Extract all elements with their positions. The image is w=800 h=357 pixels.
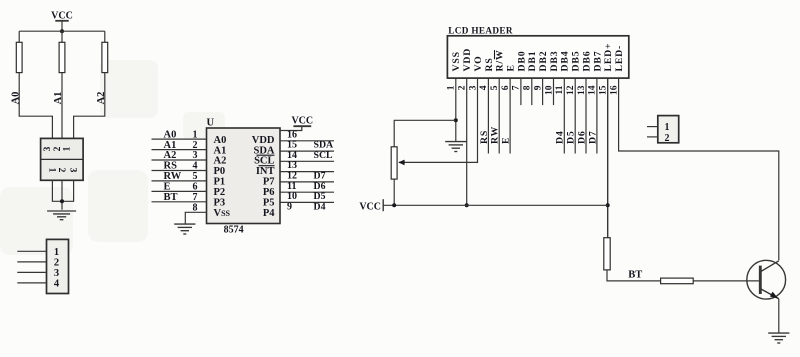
decorative watermark (not labelled further): [0, 60, 225, 255]
svg-text:4: 4: [479, 85, 489, 90]
svg-text:A0: A0: [164, 129, 177, 140]
svg-text:2: 2: [54, 258, 59, 269]
J3 pin number 4: [479, 85, 489, 90]
U1 inside pin name Vss: [214, 208, 231, 219]
U1 pin number 9: [287, 201, 292, 212]
U1 pin number 6: [193, 182, 198, 193]
J3 pin number 7: [512, 85, 522, 90]
svg-text:RS: RS: [479, 130, 490, 144]
J3 pin number 13: [577, 85, 587, 95]
svg-text:DB7: DB7: [592, 51, 603, 72]
U1 inside pin name P3: [214, 198, 226, 209]
wire: U1 pin 5 (RW): [152, 180, 207, 182]
wire: J3 pin 14 (D7) stub: [596, 78, 598, 153]
svg-text:9: 9: [533, 85, 543, 90]
net label RW: [490, 126, 501, 144]
svg-text:BT: BT: [164, 192, 178, 203]
svg-text:4: 4: [193, 161, 198, 172]
wire: U1 pin 8 (Vss) to ground: [185, 212, 207, 224]
svg-text:6: 6: [193, 182, 198, 193]
svg-text:D6: D6: [576, 130, 587, 144]
svg-text:16: 16: [609, 85, 619, 95]
net label SDA: [314, 140, 334, 151]
IC U1 designator U: [207, 118, 215, 129]
U1 inside pin name P6: [263, 187, 275, 198]
wire: J1 bottom pins to ground junction: [52, 180, 73, 209]
svg-text:SCL: SCL: [314, 150, 334, 161]
resistor R2 (pull-up A1): [59, 42, 65, 72]
svg-text:A1: A1: [214, 145, 227, 156]
J3 inside pin name DB6: [581, 51, 592, 72]
J3 inside pin name VDD: [462, 48, 473, 72]
wire: J3 pin 16 (LED-) to transistor collector: [619, 78, 779, 260]
wire: J3 pin 13 (D6) stub: [585, 78, 587, 153]
svg-text:DB4: DB4: [560, 51, 571, 72]
U1 pin number 14: [287, 150, 297, 161]
wire: J3 pin 10 (DB3) stub: [553, 78, 555, 105]
connector J2 (1x4 header) body: [47, 239, 69, 293]
net label A0: [10, 92, 21, 105]
wire: J4 pin 2 stub: [647, 136, 658, 138]
svg-text:10: 10: [544, 85, 554, 95]
wire: J4 pin 1 stub: [647, 126, 658, 128]
J3 inside pin name DB3: [549, 51, 560, 72]
svg-text:RS: RS: [164, 161, 178, 172]
svg-text:VCC: VCC: [291, 115, 313, 126]
svg-text:5: 5: [490, 85, 500, 90]
svg-text:VSS: VSS: [214, 208, 231, 219]
resistor R3 (pull-up A2): [102, 42, 108, 72]
svg-text:13: 13: [577, 85, 587, 95]
net label BT: [164, 192, 178, 203]
J3 pin number 10: [544, 85, 554, 95]
svg-text:DB3: DB3: [549, 51, 560, 72]
J3 pin number 3: [468, 85, 478, 90]
net label D5: [314, 191, 326, 202]
J3 pin number 1: [447, 85, 457, 90]
U1 inside pin name SCL: [254, 156, 274, 167]
svg-text:D7: D7: [587, 130, 598, 144]
svg-text:14: 14: [588, 85, 598, 95]
svg-text:E: E: [506, 64, 517, 71]
connector J2 pin number 2: [54, 258, 59, 269]
svg-text:P3: P3: [214, 198, 226, 209]
net label A2: [96, 92, 107, 105]
J3 inside pin name LED-: [614, 45, 625, 72]
svg-text:A2: A2: [164, 150, 177, 161]
J3 inside pin name DB5: [571, 51, 582, 72]
svg-text:DB0: DB0: [516, 51, 527, 72]
J3 inside pin name E: [506, 64, 517, 71]
ground at U1 Vss: [174, 224, 195, 234]
wire: U1 pin 2 (A1): [152, 149, 207, 151]
net label A0: [164, 129, 177, 140]
J3 pin number 15: [599, 85, 609, 95]
potentiometer RP1 body: [391, 147, 397, 179]
svg-text:7: 7: [512, 85, 522, 90]
wire: J3 pin 5 (RW) stub: [498, 78, 500, 153]
wire: U1 pin 1 (A0): [152, 138, 207, 140]
J3 inside pin name VSS: [451, 51, 462, 71]
wire: J2 pin 4 lead: [17, 282, 46, 284]
svg-text:2: 2: [53, 146, 63, 151]
node: junction under J1: [60, 199, 64, 203]
node: LED+ on VCC rail: [606, 203, 610, 207]
wire: J3 pin 4 (RS) stub: [487, 78, 489, 153]
svg-text:A0: A0: [10, 92, 21, 105]
U1 pin number 7: [193, 192, 198, 203]
svg-text:P6: P6: [263, 187, 275, 198]
svg-text:INT: INT: [256, 166, 275, 177]
net label A1: [164, 140, 177, 151]
svg-text:RS: RS: [484, 57, 495, 71]
wire: J3 pin 3 (VO) to potentiometer wiper: [399, 78, 478, 162]
connector J4 pin number 2: [665, 133, 670, 144]
U1 inside pin name P4: [263, 208, 275, 219]
J3 pin number 6: [501, 85, 511, 90]
U1 inside pin name A1: [214, 145, 227, 156]
resistor R5 (base resistor BT): [661, 278, 694, 284]
wire: J3 pin 15 (LED+) down to VCC rail and R4: [607, 78, 609, 238]
wire: U1 pin 16 to VCC: [280, 126, 302, 130]
svg-text:VDD: VDD: [462, 48, 473, 72]
wire: U1 pin 12: [280, 171, 334, 173]
U1 inside pin name INT: [256, 166, 275, 177]
net label A1: [53, 92, 64, 105]
connector J4 pin number 1: [665, 122, 670, 133]
svg-text:VCC: VCC: [359, 201, 381, 212]
svg-text:9: 9: [287, 201, 292, 212]
net label D6: [576, 130, 587, 144]
wire: rail to resistor R3: [104, 31, 106, 42]
svg-text:2: 2: [56, 168, 66, 173]
wire: U1 pin 6 (E): [152, 190, 207, 192]
svg-text:R/W: R/W: [495, 50, 506, 72]
ground under J1: [47, 211, 76, 220]
J3 pin number 16: [609, 85, 619, 95]
wire: U1 pin 9: [280, 201, 334, 203]
svg-text:7: 7: [193, 192, 198, 203]
U1 inside pin name SDA: [253, 145, 274, 156]
U1 pin number 2: [193, 140, 198, 151]
power symbol VCC at U1 pin 16: [291, 115, 313, 126]
U1 inside pin name A2: [214, 156, 227, 167]
U1 pin number 4: [193, 161, 198, 172]
svg-text:DB5: DB5: [571, 51, 582, 72]
J3 inside pin name DB1: [527, 51, 538, 72]
net label RS: [479, 130, 490, 144]
svg-text:4: 4: [54, 279, 60, 290]
wire: VCC rail: [383, 204, 608, 206]
wire: J2 pin 3 lead: [17, 271, 46, 273]
svg-text:D5: D5: [566, 130, 577, 144]
J3 inside pin name DB2: [538, 51, 549, 72]
wire: Q1 emitter to ground: [778, 299, 780, 333]
svg-text:3: 3: [54, 268, 59, 279]
U1 inside pin name P7: [263, 177, 275, 188]
svg-text:6: 6: [501, 85, 511, 90]
connector J1 pin labels top row 3 2 1: [43, 146, 72, 151]
U1 pin number 5: [193, 171, 198, 182]
U1 inside pin name P5: [263, 198, 275, 209]
svg-text:A2: A2: [96, 92, 107, 105]
svg-text:1: 1: [193, 129, 198, 140]
node: VCC rail junction: [60, 29, 64, 33]
net label BT: [628, 270, 642, 281]
wire: rail to resistor R1: [18, 31, 20, 42]
resistor R4 (LED+ branch): [604, 238, 610, 270]
wire: U1 pin 4 (RS): [152, 170, 207, 172]
J3 pin number 11: [555, 85, 565, 94]
wire: U1 pin 3 (A2): [152, 159, 207, 161]
LCD HEADER title: [448, 26, 513, 36]
svg-text:LED+: LED+: [603, 43, 614, 72]
U1 pin number 13: [287, 160, 297, 171]
node: VSS / pot junction: [454, 118, 458, 122]
svg-text:2: 2: [458, 85, 468, 90]
connector J2 pin number 4: [54, 279, 60, 290]
svg-text:5: 5: [193, 171, 198, 182]
J3 inside pin name RS: [484, 57, 495, 71]
svg-text:1: 1: [447, 85, 457, 90]
svg-text:P4: P4: [263, 208, 275, 219]
net label RS: [164, 161, 178, 172]
overline of SCL: [257, 154, 275, 156]
J3 inside pin name LED+: [603, 43, 614, 72]
svg-text:8: 8: [193, 203, 198, 214]
wire: J3 pin 1 (VSS) down to ground: [455, 78, 457, 142]
transistor Q1 (NPN): [747, 260, 786, 299]
wire: resistor R3 lower lead: [74, 73, 105, 139]
J3 inside pin name DB0: [516, 51, 527, 72]
U1 pin number 10: [287, 191, 297, 202]
svg-text:11: 11: [555, 85, 565, 94]
net label D6: [314, 181, 326, 192]
svg-text:A1: A1: [53, 92, 64, 105]
svg-text:SCL: SCL: [254, 156, 274, 167]
svg-text:2: 2: [193, 140, 198, 151]
svg-text:3: 3: [43, 146, 53, 151]
net label D7: [314, 171, 326, 182]
wire: J3 pin 9 (DB2) stub: [542, 78, 544, 105]
svg-text:1: 1: [46, 168, 56, 173]
ground at Q1 emitter: [768, 333, 789, 343]
svg-text:VO: VO: [473, 55, 484, 71]
svg-text:P0: P0: [214, 166, 226, 177]
power port VCC (rail): [359, 199, 383, 212]
U1 inside pin name A0: [214, 135, 227, 146]
wire: J2 pin 2 lead: [17, 261, 46, 263]
svg-text:P1: P1: [214, 177, 226, 188]
wire: potentiometer bottom to VCC rail: [393, 179, 395, 205]
U1 pin number 15: [287, 140, 297, 151]
overline of INT: [259, 165, 275, 167]
svg-text:D4: D4: [555, 130, 566, 144]
wire: U1 pin 10: [280, 191, 334, 193]
wire: J3 pin 11 (D4) stub: [563, 78, 565, 153]
net label E: [501, 137, 512, 144]
J3 pin number 9: [533, 85, 543, 90]
svg-text:1: 1: [54, 247, 59, 258]
net label D4: [314, 201, 326, 212]
net label A2: [164, 150, 177, 161]
U1 pin number 3: [193, 150, 198, 161]
net label D7: [587, 130, 598, 144]
svg-text:A0: A0: [214, 135, 227, 146]
svg-text:8: 8: [523, 85, 533, 90]
svg-text:12: 12: [566, 85, 576, 95]
connector J2 pin number 1: [54, 247, 59, 258]
connector J4 (1x2) body: [658, 116, 679, 143]
J3 pin number 14: [588, 85, 598, 95]
wire: potentiometer top to VSS node: [394, 120, 456, 147]
resistor R1 (pull-up A0): [16, 42, 22, 72]
J3 pin number 8: [523, 85, 533, 90]
svg-text:RW: RW: [164, 171, 182, 182]
connector J2 pin number 3: [54, 268, 59, 279]
U1 pin number 16: [287, 129, 297, 140]
svg-text:3: 3: [468, 85, 478, 90]
IC U1 part number 8574: [224, 225, 244, 236]
U1 pin number 1: [193, 129, 198, 140]
svg-text:1: 1: [665, 122, 670, 133]
U1 pin number 8: [193, 203, 198, 214]
wire: U1 pin 7 (BT): [152, 201, 207, 203]
connector J1 pin labels bottom row 1 2 3: [46, 168, 77, 173]
wire: resistor R1 lower lead: [19, 73, 52, 139]
wire: U1 pin 15: [280, 140, 334, 142]
U1 pin number 12: [287, 171, 297, 182]
svg-text:DB2: DB2: [538, 51, 549, 72]
wire: resistor R2 lower lead: [61, 73, 63, 139]
node: VDD on VCC rail: [465, 203, 469, 207]
svg-text:VSS: VSS: [451, 51, 462, 71]
node: potentiometer on VCC rail: [392, 203, 396, 207]
wire: J3 pin 7 (DB0) stub: [520, 78, 522, 105]
wire: J2 pin 1 lead: [17, 250, 46, 252]
svg-text:P5: P5: [263, 198, 275, 209]
IC U1 (8574 I/O expander) body: [207, 128, 281, 224]
wire: J3 pin 2 (VDD) down to VCC rail: [466, 78, 468, 205]
connector J3 LCD HEADER body: [447, 36, 628, 78]
svg-text:E: E: [501, 137, 512, 144]
svg-text:A2: A2: [214, 156, 227, 167]
J3 pin number 2: [458, 85, 468, 90]
svg-text:8574: 8574: [224, 225, 244, 236]
U1 pin number 11: [287, 181, 296, 192]
svg-text:P7: P7: [263, 177, 275, 188]
svg-text:A1: A1: [164, 140, 177, 151]
wire: J3 pin 12 (D5) stub: [574, 78, 576, 153]
svg-text:P2: P2: [214, 187, 226, 198]
J3 inside pin name R/W: [495, 50, 506, 72]
J3 pin number 5: [490, 85, 500, 90]
wire: J3 pin 6 (E) stub: [509, 78, 511, 153]
wire: J3 pin 8 (DB1) stub: [531, 78, 533, 105]
svg-text:1: 1: [63, 146, 73, 151]
svg-text:E: E: [164, 182, 171, 193]
net label RW: [164, 171, 182, 182]
U1 inside pin name P2: [214, 187, 226, 198]
ground at J3 VSS: [445, 142, 466, 152]
wire: top-left VCC rail: [19, 30, 105, 32]
svg-text:D4: D4: [314, 201, 326, 212]
wire: R5 to Q1 base: [693, 280, 759, 282]
net label SCL: [314, 150, 334, 161]
U1 inside pin name P1: [214, 177, 226, 188]
connector J1 (3x2 jumper) body: [41, 138, 84, 180]
U1 inside pin name P0: [214, 166, 226, 177]
J3 inside pin name DB7: [592, 51, 603, 72]
wire: U1 pin 14: [280, 150, 334, 152]
J3 inside pin name DB4: [560, 51, 571, 72]
potentiometer wiper arrow: [398, 160, 404, 166]
svg-text:3: 3: [67, 168, 77, 173]
svg-text:LCD HEADER: LCD HEADER: [448, 26, 513, 36]
wire: rail to resistor R2: [61, 31, 63, 42]
U1 inside pin name VDD: [252, 135, 275, 146]
net label D4: [555, 130, 566, 144]
wire: U1 pin 13: [280, 160, 334, 162]
svg-text:3: 3: [193, 150, 198, 161]
power symbol VCC (top left): [51, 11, 73, 32]
J3 inside pin name VO: [473, 55, 484, 71]
svg-text:U: U: [207, 118, 215, 129]
svg-text:VDD: VDD: [252, 135, 275, 146]
net label E: [164, 182, 171, 193]
J3 pin number 12: [566, 85, 576, 95]
svg-text:DB1: DB1: [527, 51, 538, 72]
net label D5: [566, 130, 577, 144]
svg-text:LED-: LED-: [614, 45, 625, 72]
wire: U1 pin 11: [280, 181, 334, 183]
svg-text:BT: BT: [628, 270, 642, 281]
wire: R4 bottom to base resistor: [607, 270, 661, 281]
svg-text:DB6: DB6: [581, 51, 592, 72]
svg-text:2: 2: [665, 133, 670, 144]
svg-text:RW: RW: [490, 126, 501, 144]
